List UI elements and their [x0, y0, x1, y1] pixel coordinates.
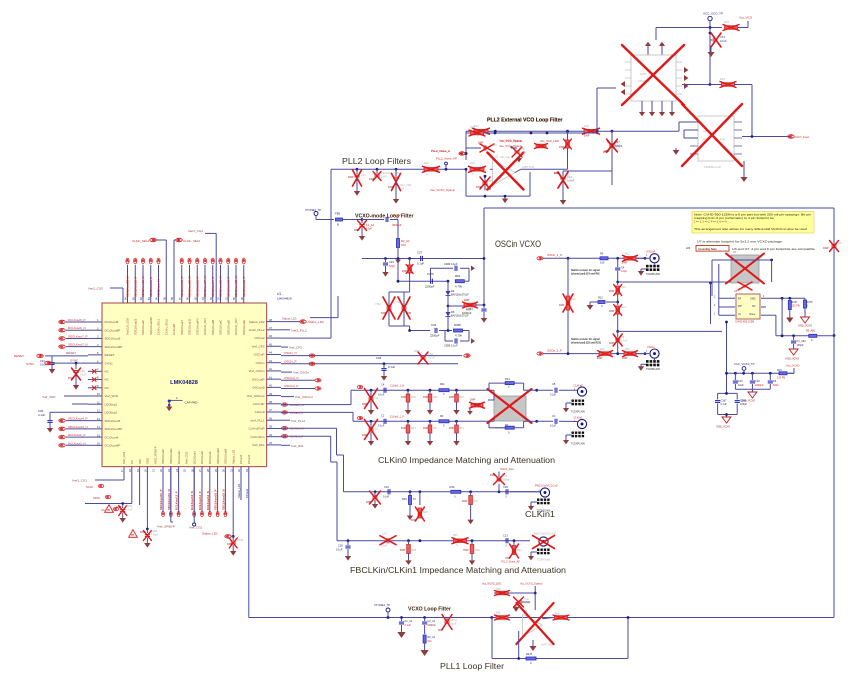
- resistor R24 crossed: [423, 161, 440, 176]
- svg-text:R52: R52: [459, 396, 464, 399]
- pin top 2: [131, 265, 137, 335]
- svg-text:Vref_VDD: Vref_VDD: [42, 395, 56, 399]
- svg-text:SYNC: SYNC: [70, 359, 79, 363]
- label Vref2_PLL2: [281, 328, 307, 332]
- label Vref_CG2: [189, 467, 203, 530]
- wire FBCLKin rail: [337, 539, 530, 542]
- svg-text:TCDNP1A06: TCDNP1A06: [571, 443, 585, 446]
- label Vcc_VCXO_Opamp: [513, 583, 543, 611]
- svg-text:R11: R11: [440, 382, 445, 386]
- svg-text:C46: C46: [488, 179, 493, 183]
- capacitor C4 10pF on divider: [615, 258, 627, 282]
- ground of C367 loop: [716, 413, 737, 428]
- svg-text:OSCin_1_P: OSCin_1_P: [547, 348, 562, 352]
- label Vref_SPIBYP: [157, 467, 175, 529]
- port top clock output: [149, 258, 153, 297]
- svg-text:DCLKout2_P: DCLKout2_P: [68, 433, 86, 437]
- svg-text:SDCLKout23P: SDCLKout23P: [149, 317, 153, 335]
- label Vert2_CG5: [88, 287, 123, 304]
- port OSCout_N: [281, 376, 321, 382]
- svg-text:DNP: DNP: [584, 134, 590, 138]
- capacitor C383 upper loop: [431, 262, 475, 281]
- svg-text:DNP: DNP: [406, 312, 412, 315]
- svg-text:C1: C1: [552, 414, 556, 418]
- svg-text:VCO: VCO: [640, 72, 647, 76]
- svg-text:SDCLKout17_N: SDCLKout17_N: [203, 276, 207, 297]
- wire CLKin1_N down: [281, 427, 344, 492]
- ground at opamp: [502, 195, 508, 203]
- pin right 43 OSCin: [256, 359, 281, 365]
- no-connect mark NC: [92, 386, 96, 390]
- svg-text:R21: R21: [600, 348, 605, 351]
- svg-text:SDCLKoutN: SDCLKoutN: [224, 449, 228, 464]
- svg-text:4.70k: 4.70k: [455, 334, 462, 338]
- svg-text:SDCLKout15_N: SDCLKout15_N: [188, 276, 192, 297]
- pin bottom 19: [136, 459, 142, 472]
- label Vref_OSCin: [281, 371, 309, 375]
- resistor R30 series CLKin1: [450, 485, 461, 499]
- svg-text:CLKin_SEL0: CLKin_SEL0: [164, 319, 168, 335]
- capacitor C1 series to SMA P: [550, 414, 577, 428]
- svg-text:R50: R50: [433, 396, 438, 399]
- svg-text:CP: CP: [130, 460, 134, 464]
- svg-text:C32: C32: [431, 323, 437, 327]
- svg-text:Vref_CG2: Vref_CG2: [189, 526, 203, 530]
- svg-text:LMK04828: LMK04828: [277, 297, 292, 301]
- svg-text:2uF: 2uF: [400, 187, 405, 191]
- svg-text:DNP: DNP: [400, 549, 406, 552]
- resistor R36 DNP vertical: [559, 131, 572, 149]
- svg-text:Vref_PLL1: Vref_PLL1: [291, 419, 305, 423]
- resistor R50 shunt DNP N3: [423, 390, 438, 414]
- svg-text:0.1uF: 0.1uF: [388, 365, 395, 369]
- wire ext VCO LF rail: [465, 130, 612, 160]
- svg-text:82pF: 82pF: [773, 384, 779, 387]
- svg-text:SDCLKout7_P: SDCLKout7_P: [68, 334, 88, 338]
- svg-text:OSCin: OSCin: [647, 345, 655, 349]
- svg-text:LMPT7141: LMPT7141: [522, 165, 535, 169]
- svg-text:DNP: DNP: [823, 246, 829, 250]
- svg-text:FBCLKin/CLKin1 Impedance Match: FBCLKin/CLKin1 Impedance Matching and At…: [350, 566, 566, 575]
- resistor R14 DNP crossed lower: [609, 302, 626, 331]
- svg-text:100pF: 100pF: [740, 403, 748, 406]
- pin right 46 CPout2: [254, 334, 281, 340]
- svg-text:OSCin_N: OSCin_N: [284, 351, 297, 355]
- port SDCLKout7_N: [59, 343, 88, 349]
- svg-text:R22: R22: [625, 253, 630, 256]
- transistor U7 crossed gray footprint: [726, 251, 764, 284]
- svg-text:SDCLKout19_P: SDCLKout19_P: [226, 276, 230, 297]
- port top clock output: [226, 258, 230, 297]
- svg-text:0.1uF: 0.1uF: [417, 262, 424, 266]
- svg-text:OSCin VCXO: OSCin VCXO: [495, 239, 541, 249]
- port DCLKout6_N: [59, 326, 88, 332]
- svg-text:Status_LD2: Status_LD2: [249, 320, 265, 324]
- svg-text:R368: R368: [454, 323, 461, 327]
- svg-text:DNP: DNP: [622, 357, 628, 360]
- svg-text:C29: C29: [492, 144, 497, 147]
- svg-text:0.1uF: 0.1uF: [383, 496, 390, 499]
- svg-text:R16: R16: [777, 369, 782, 372]
- svg-text:0.1uF: 0.1uF: [525, 602, 532, 605]
- node VTUNE1_TP: [374, 603, 390, 619]
- resistor R360 crossed DNP to box edge: [448, 299, 485, 312]
- capacitor C19 2200pF: [750, 373, 764, 389]
- svg-text:DNP: DNP: [462, 500, 468, 503]
- svg-text:SDCLKout23_P: SDCLKout23_P: [133, 276, 137, 297]
- svg-text:C4xVCXO_VDD: C4xVCXO_VDD: [381, 171, 400, 175]
- capacitor C10 10uF: [733, 373, 744, 389]
- svg-text:Vref_VDD: Vref_VDD: [105, 394, 119, 398]
- svg-text:VCXO-mode Loop Filter: VCXO-mode Loop Filter: [355, 214, 414, 220]
- svg-text:R51: R51: [433, 427, 438, 430]
- pin left 10 Vref_VDD: [88, 392, 119, 398]
- svg-text:R25: R25: [470, 161, 475, 165]
- pin right 45 Vref_CP2: [252, 342, 281, 348]
- resistor R2_A1 51k: [420, 625, 435, 656]
- capacitor C3_A1 crossed DNP: [438, 615, 458, 633]
- pin right 36 Vref_PLL1: [250, 416, 281, 422]
- port Status_LD1: [202, 467, 235, 539]
- capacitor C42 crossed DNP: [348, 169, 366, 195]
- pin left 13 SDCLKout5: [88, 417, 121, 423]
- svg-text:DNP: DNP: [381, 175, 387, 179]
- connector CLKin1 SMA: [528, 485, 558, 513]
- svg-text:DNP: DNP: [464, 299, 470, 302]
- port VCO_Fout: [742, 135, 809, 139]
- svg-text:Vert2_CG5: Vert2_CG5: [88, 287, 103, 291]
- connector FBCLK crossed: [528, 533, 556, 562]
- port top clock output: [219, 258, 223, 297]
- svg-text:DNP: DNP: [354, 228, 360, 232]
- resistor R35 crossed: [583, 124, 600, 138]
- svg-text:DCLKout2_N: DCLKout2_N: [68, 441, 86, 445]
- svg-text:C19: C19: [755, 380, 760, 383]
- ground below buffer: [740, 161, 747, 182]
- svg-text:CLKoutB: CLKoutB: [172, 324, 176, 335]
- pin right 47 Vref2_PLL2: [249, 326, 281, 332]
- resistor R6 100 series: [600, 252, 608, 265]
- pin bottom 21: [151, 446, 157, 472]
- capacitor C2a series P: [378, 414, 404, 428]
- svg-text:DNP: DNP: [609, 290, 615, 293]
- note text U7 alternate: [686, 241, 816, 252]
- svg-text:TCDNP1A06: TCDNP1A06: [646, 273, 660, 276]
- svg-text:DNP: DNP: [366, 501, 372, 504]
- capacitor C9 82pF: [768, 373, 779, 389]
- pin top 5: [155, 265, 161, 335]
- svg-text:DCLKout4P: DCLKout4P: [105, 444, 121, 448]
- wire Vtune to R3_AB1: [761, 298, 809, 337]
- port SYNC: [26, 359, 88, 367]
- resistor R368 4.70k: [454, 323, 470, 338]
- pin top 6: [162, 265, 168, 335]
- svg-text:GND_VCXO: GND_VCXO: [798, 325, 812, 328]
- capacitor C13 series FBCLK: [503, 534, 508, 548]
- capacitor C39 series before SMA: [503, 485, 541, 499]
- svg-text:Vref_CG1: Vref_CG1: [122, 451, 126, 464]
- svg-text:Vref1_CG1: Vref1_CG1: [72, 479, 87, 483]
- wire Status_LD1 stub: [237, 467, 241, 500]
- svg-text:CLKin1FinP: CLKin1FinP: [248, 427, 264, 431]
- svg-text:Vcc_VCO_LDO: Vcc_VCO_LDO: [540, 139, 559, 143]
- svg-text:C13: C13: [503, 534, 508, 538]
- resistor R61 crossed shunt FBCLK3: [506, 541, 523, 560]
- svg-text:DNP: DNP: [559, 146, 565, 149]
- text switch resistor note 1: [571, 269, 600, 275]
- capacitor C13 crossed 0.1uF: [709, 32, 727, 47]
- svg-text:R10: R10: [621, 286, 626, 289]
- svg-text:0.1uF: 0.1uF: [336, 549, 343, 552]
- svg-text:C4: C4: [621, 265, 625, 269]
- svg-text:CLKin0: CLKin0: [255, 410, 265, 414]
- svg-text:R3: R3: [440, 414, 444, 418]
- ferrite bead FB5: [335, 212, 362, 227]
- svg-text:R278: R278: [526, 653, 533, 656]
- pin top 16: [240, 265, 246, 335]
- svg-text:DNP: DNP: [401, 396, 407, 399]
- resistor DNP vertical below rail: [402, 259, 413, 293]
- svg-text:SDCLKout23_N: SDCLKout23_N: [126, 276, 130, 297]
- op-amp U31 buffer crossed: [682, 104, 742, 169]
- svg-text:Vcc_VCXO: Vcc_VCXO: [786, 364, 800, 368]
- wire VCO out right: [682, 83, 711, 86]
- port SDCLKout4_N: [59, 425, 88, 431]
- svg-text:DNP: DNP: [348, 175, 354, 179]
- pin left 7 NC: [88, 368, 110, 374]
- svg-text:SDCLKoutP2: SDCLKoutP2: [195, 318, 199, 335]
- wire CLKin stub 2: [139, 467, 141, 505]
- svg-text:RESET: RESET: [66, 351, 76, 355]
- svg-text:100pF: 100pF: [797, 344, 805, 347]
- pin right 38 CLKin0P: [253, 400, 281, 406]
- svg-text:R2: R2: [505, 423, 509, 427]
- resistor R62 4.70k: [455, 274, 469, 289]
- svg-text:CVHD-950-125M: CVHD-950-125M: [735, 321, 754, 324]
- svg-text:SDCLKoutD: SDCLKoutD: [226, 320, 230, 335]
- wire mid tap to VCXO RF: [616, 281, 731, 284]
- svg-text:DCLKout12_N: DCLKout12_N: [190, 491, 194, 510]
- power arrow below C13: [707, 47, 714, 57]
- svg-text:SDCLKout21_N: SDCLKout21_N: [234, 276, 238, 297]
- svg-text:R6: R6: [600, 252, 604, 256]
- ferrite bead R337 120 FB: [786, 301, 800, 323]
- svg-text:Vref_SPIBYP: Vref_SPIBYP: [157, 525, 175, 529]
- label Vref_OSCout: [281, 395, 313, 399]
- svg-text:C14: C14: [382, 532, 387, 536]
- resistor R278 0 on feedback: [526, 653, 536, 665]
- diode D6 BAV126: [446, 305, 470, 332]
- pin left 5 RESET: [88, 351, 115, 357]
- node PLL2_Vtune_AP: [436, 157, 457, 171]
- power arrows left of VCO: [621, 81, 625, 95]
- port bottom-left diagonal 1: [86, 484, 104, 489]
- svg-text:OSCin_1_N: OSCin_1_N: [547, 253, 562, 257]
- svg-text:62pF: 62pF: [389, 264, 395, 268]
- pin top 12: [209, 265, 215, 335]
- svg-text:U7 is alternate footprint for: U7 is alternate footprint for 5x3.2 mm V…: [697, 241, 783, 244]
- port top clock output: [141, 258, 145, 297]
- svg-text:R48: R48: [402, 498, 407, 501]
- wire OSCin_P rail: [281, 359, 458, 365]
- svg-text:0.1uF: 0.1uF: [381, 545, 388, 548]
- capacitor C29 crossed on stub: [466, 142, 497, 153]
- wire PLL2 loop filter rail: [331, 168, 466, 171]
- label Vcc_VCO_Opamp: [500, 139, 523, 143]
- svg-text:OSCout_P: OSCout_P: [284, 384, 298, 388]
- resistor R31 crossed: [473, 124, 490, 138]
- svg-text:C18: C18: [338, 545, 343, 548]
- svg-text:OSCin_P: OSCin_P: [284, 359, 297, 363]
- power arrows right of VCO: [684, 67, 688, 89]
- port bottom-left diagonal 3: [101, 507, 119, 512]
- svg-text:120 FB: 120 FB: [777, 377, 785, 380]
- capacitor C32 2200pF: [430, 323, 452, 338]
- svg-text:DNP: DNP: [449, 427, 455, 430]
- wire CLKin1 rail: [344, 490, 541, 493]
- svg-text:RESET: RESET: [105, 353, 115, 357]
- svg-text:B: B: [337, 223, 339, 227]
- pin right 40 OSCout0: [252, 384, 281, 390]
- resistor R23 DNP crossed series P2: [622, 348, 645, 360]
- svg-text:D6: D6: [451, 310, 455, 314]
- ground below opamp: [529, 640, 536, 651]
- wire bottom stub 6: [167, 467, 173, 517]
- wire buffer left pins: [684, 130, 698, 138]
- svg-text:U3 and U7: 4 pin and 6 pin foo: U3 and U7: 4 pin and 6 pin footprints ar…: [732, 248, 816, 251]
- svg-text:DCLKout4: DCLKout4: [105, 435, 119, 439]
- svg-text:SDCLKout9P: SDCLKout9P: [105, 345, 123, 349]
- resistor R3 0 series P: [439, 414, 449, 428]
- capacitor C1_A2 crossed DNP: [354, 218, 374, 241]
- resistor R13 0 top of balun: [489, 377, 553, 392]
- pin bottom 18: [128, 460, 134, 472]
- pin right 39 Vref_OSCout: [247, 392, 281, 398]
- svg-text:Vref_CG2: Vref_CG2: [185, 451, 189, 464]
- svg-text:C33: C33: [389, 260, 394, 264]
- ground left of buffer: [673, 122, 698, 155]
- svg-text:R60: R60: [475, 549, 480, 552]
- label C2x cap gray: [500, 155, 511, 159]
- svg-text:DNP: DNP: [609, 342, 615, 345]
- svg-text:OSCinP: OSCinP: [646, 250, 656, 254]
- svg-text:Vtune: Vtune: [749, 313, 756, 316]
- svg-text:SDCLKout15_P: SDCLKout15_P: [195, 276, 199, 297]
- svg-text:R24: R24: [424, 161, 429, 165]
- svg-text:Vref_CP2: Vref_CP2: [289, 346, 302, 350]
- port top clock output: [211, 258, 215, 297]
- svg-text:SDCLKout21_P: SDCLKout21_P: [242, 276, 246, 297]
- svg-text:Vcc_VCXO_Opamp: Vcc_VCXO_Opamp: [520, 583, 543, 586]
- pin bottom 17: [120, 451, 126, 472]
- svg-text:CLKin0 Impedance Matching and: CLKin0 Impedance Matching and Attenuatio…: [378, 456, 555, 465]
- pin right 34 CLKin1Fin: [250, 433, 281, 439]
- port top clock output: [242, 258, 246, 297]
- svg-text:2200pF: 2200pF: [430, 334, 440, 338]
- svg-text:VccCLK_C03: VccCLK_C03: [203, 318, 207, 335]
- wire OSCin VCXO boundary left: [483, 208, 485, 305]
- resistor R12 0 to ground: [587, 296, 619, 310]
- wire to VCO: [597, 88, 616, 133]
- svg-text:C2x Cap: C2x Cap: [500, 155, 511, 159]
- svg-text:R59: R59: [453, 534, 458, 537]
- svg-text:CS: CS: [101, 508, 105, 512]
- pin bottom 29: [214, 448, 220, 472]
- svg-text:Vcc_VCO_Opamp: Vcc_VCO_Opamp: [499, 139, 522, 143]
- svg-text:D4: D4: [451, 289, 455, 293]
- svg-text:R31: R31: [474, 124, 479, 128]
- svg-text:0.1uF: 0.1uF: [550, 394, 557, 397]
- wire OSCin_1_P rail: [537, 348, 646, 355]
- svg-text:DNP: DNP: [423, 427, 429, 430]
- svg-text:R49: R49: [411, 427, 416, 430]
- svg-text:DNP: DNP: [597, 357, 603, 360]
- capacitor C375 2200pF: [425, 272, 435, 289]
- svg-text:DNP: DNP: [388, 185, 394, 189]
- svg-text:Y304: Y304: [375, 303, 381, 306]
- svg-text:SDCLKout9: SDCLKout9: [105, 337, 121, 341]
- label Vref_PLL1: [281, 419, 305, 423]
- svg-text:R66: R66: [555, 613, 560, 616]
- wire mid tap to VCXO RFstar: [616, 330, 722, 333]
- port SDCLKout4_P: [59, 417, 88, 423]
- svg-text:DNP: DNP: [411, 519, 417, 522]
- svg-text:2200pF: 2200pF: [755, 384, 764, 387]
- svg-text:Vee_VCXO_Opamp: Vee_VCXO_Opamp: [430, 188, 455, 192]
- svg-text:C26: C26: [428, 352, 433, 356]
- svg-text:PW13.Ga*VC3.Cnd*: PW13.Ga*VC3.Cnd*: [534, 533, 556, 536]
- svg-text:LDObyp1: LDObyp1: [105, 402, 118, 406]
- capacitor C7 crossed at P rail: [357, 417, 379, 446]
- svg-text:CSHDW-xx-LF: CSHDW-xx-LF: [704, 165, 722, 169]
- port PLL2_Vtune_AP left: [431, 149, 466, 155]
- power arrows above VCO: [645, 42, 665, 55]
- capacitor C335 DNP crossed: [140, 467, 159, 548]
- svg-text:This arrangement also allows f: This arrangement also allows for many di…: [694, 228, 808, 231]
- port DCLKout2_P: [59, 433, 88, 439]
- resistor R52 shunt DNP N4: [449, 390, 464, 414]
- svg-text:CLKin_SEL1: CLKin_SEL1: [157, 319, 161, 335]
- resistor R60 shunt DNP FBCLK2: [464, 541, 481, 565]
- svg-text:C14: C14: [615, 143, 620, 147]
- capacitor at SYNC (DNP): [68, 362, 87, 390]
- svg-text:0x80nF: 0x80nF: [428, 624, 437, 627]
- svg-text:DNP: DNP: [554, 171, 560, 175]
- wire Vref_CG1 elbow: [72, 467, 124, 483]
- svg-text:DNP: DNP: [470, 399, 476, 402]
- pin left 15 DCLKout4: [88, 433, 119, 439]
- svg-text:C39: C39: [503, 485, 508, 489]
- resistor R376 with open ground: [798, 298, 813, 327]
- wire CLKin0_N to network: [281, 390, 354, 407]
- svg-text:C10: C10: [738, 380, 743, 383]
- svg-text:Vref_DIG: Vref_DIG: [252, 443, 265, 447]
- resistor R9 DNP crossed between rails: [559, 258, 576, 353]
- pin bottom 26: [190, 451, 196, 472]
- pin top 10: [193, 265, 199, 335]
- svg-text:U1: U1: [277, 292, 281, 296]
- svg-text:OSCinP: OSCinP: [254, 353, 265, 357]
- capacitor C26 DNP crossed: [414, 349, 435, 364]
- svg-text:SDCLKout16_N: SDCLKout16_N: [221, 489, 225, 510]
- svg-text:DCLKout14_N: DCLKout14_N: [206, 491, 210, 510]
- svg-text:PLL2 Loop Filters: PLL2 Loop Filters: [342, 156, 411, 166]
- svg-text:0.1uF: 0.1uF: [126, 508, 133, 512]
- svg-text:R14: R14: [621, 306, 626, 309]
- wire discrete network rail: [362, 257, 485, 264]
- port top clock output: [188, 258, 192, 297]
- svg-text:C2: C2: [381, 414, 385, 418]
